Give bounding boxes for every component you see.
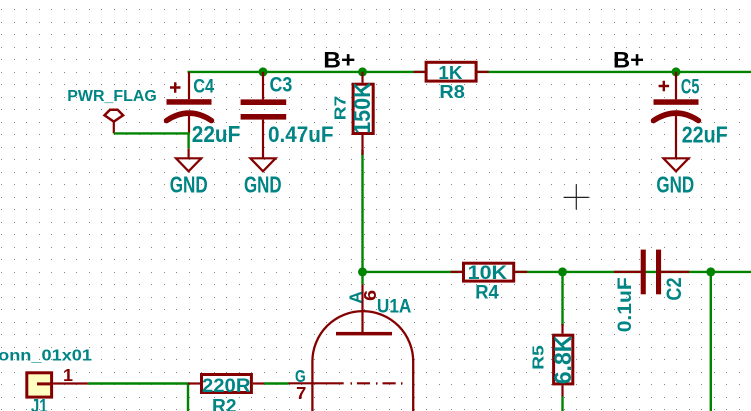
R2 pin 1 (left) — [188, 382, 200, 384]
wire R7 to lower junction vertical — [361, 150, 363, 285]
grid dashed line — [351, 382, 403, 384]
anode plate bar — [336, 332, 392, 336]
junction R5 node — [558, 267, 567, 276]
svg-text:150K: 150K — [349, 82, 375, 134]
svg-text:220R: 220R — [202, 375, 251, 397]
junction C2 right node — [706, 267, 715, 276]
R4 pin 1 (left) — [451, 271, 462, 273]
svg-text:0.47uF: 0.47uF — [268, 122, 334, 147]
C2 left plate — [641, 250, 646, 295]
C4 pin 2 (bottom) — [188, 116, 190, 134]
junction at C3 top — [259, 67, 268, 76]
svg-text:1: 1 — [63, 365, 73, 385]
C5 pin 2 (bottom) — [675, 116, 677, 159]
R4 pin 2 (right) — [515, 271, 527, 273]
GND1 pin — [188, 149, 190, 159]
PWR_FLAG flag symbol — [105, 110, 124, 122]
C4 polarity + sign — [170, 82, 181, 93]
junction anode node — [358, 267, 367, 276]
wire R5 to bottom edge — [561, 397, 563, 411]
svg-text:U1A: U1A — [377, 295, 412, 317]
PWR_FLAG pin — [113, 122, 115, 133]
svg-text:GND: GND — [656, 172, 694, 198]
C5 curved negative plate — [654, 113, 699, 121]
GND2 triangle — [250, 158, 275, 171]
svg-text:Conn_01x01: Conn_01x01 — [0, 348, 92, 365]
svg-text:7: 7 — [296, 383, 306, 403]
R8 pin 2 (right) — [478, 71, 489, 73]
svg-text:C2: C2 — [663, 278, 686, 301]
R8 body — [426, 62, 476, 81]
GND3 triangle — [663, 158, 688, 171]
connector J1 — [0, 348, 92, 411]
svg-text:0.1uF: 0.1uF — [614, 277, 636, 332]
svg-text:R8: R8 — [439, 81, 465, 102]
svg-text:R5: R5 — [530, 345, 547, 370]
svg-text:GND: GND — [170, 172, 208, 198]
R2 pin 2 (right) — [253, 382, 264, 384]
C4 curved negative plate — [167, 113, 212, 121]
svg-text:B+: B+ — [613, 48, 644, 73]
triode U1A — [289, 285, 414, 411]
svg-text:R4: R4 — [475, 282, 499, 304]
C2 pin 2 (right) — [661, 271, 689, 273]
C2 right plate — [656, 250, 661, 295]
wire J1 to R2 — [88, 384, 188, 411]
svg-text:6.8K: 6.8K — [550, 335, 577, 384]
svg-text:C3: C3 — [270, 73, 293, 97]
GND1 triangle — [176, 158, 201, 171]
wire PWR_FLAG to C4 — [114, 133, 189, 148]
svg-text:B+: B+ — [323, 48, 355, 73]
capacitor C3 — [241, 67, 334, 158]
capacitor C5 — [654, 72, 728, 158]
svg-text:PWR_FLAG: PWR_FLAG — [67, 88, 157, 105]
R7 body — [353, 84, 373, 133]
C3 top plate — [241, 99, 287, 105]
cursor crosshair — [564, 184, 589, 209]
svg-text:22uF: 22uF — [682, 121, 728, 147]
wire lower horizontal — [363, 271, 751, 273]
ground GND2 under C3 — [244, 158, 282, 197]
svg-text:GND: GND — [244, 172, 282, 198]
svg-text:R7: R7 — [332, 96, 349, 121]
J1 pin 1 line — [53, 382, 88, 384]
R5 pin 2 (bottom) — [561, 385, 563, 396]
wire right vertical from C2 junction — [710, 272, 712, 411]
wire B+ top horizontal — [188, 71, 751, 73]
J1 body box — [27, 373, 52, 397]
C4 pin 1 (top) — [188, 72, 190, 99]
C5 positive plate — [654, 99, 699, 105]
junction at R7 top — [358, 67, 367, 76]
ground GND1 under C4 — [170, 149, 208, 198]
R5 body — [554, 335, 573, 384]
capacitor C4 — [167, 72, 241, 147]
svg-text:R2: R2 — [212, 395, 237, 411]
C3 pin 1 (top) — [262, 72, 264, 100]
R7 pin 2 (bottom) — [361, 135, 363, 155]
resistor R8 — [414, 62, 489, 102]
svg-text:C4: C4 — [193, 76, 214, 98]
junction at C5 top — [672, 67, 681, 76]
resistor R5 — [530, 272, 576, 411]
R2 body — [202, 375, 252, 393]
anode pin 6 — [361, 285, 363, 334]
resistor R7 — [332, 72, 374, 155]
resistor R2 — [188, 375, 289, 411]
C3 bottom plate — [241, 114, 287, 120]
envelope — [312, 311, 413, 411]
svg-text:22uF: 22uF — [192, 121, 241, 147]
svg-text:J1: J1 — [31, 395, 48, 411]
ground GND3 under C5 — [656, 158, 694, 197]
R8 pin 1 (left) — [414, 71, 425, 73]
R5 pin 1 (top) — [561, 324, 563, 334]
grid pin 7 — [289, 382, 344, 384]
C2 pin 1 (left) — [614, 271, 641, 273]
resistor R4 — [451, 262, 528, 303]
power flag PWR_FLAG — [67, 88, 157, 133]
capacitor C2 — [614, 250, 689, 333]
wire R2 to U1A grid pin — [264, 382, 289, 384]
R7 pin 1 (top) — [361, 72, 363, 83]
wire junction to R5 — [561, 272, 563, 326]
C4 positive plate — [167, 99, 212, 105]
J1 pin socket mark — [37, 382, 53, 385]
C3 pin 2 (bottom) — [262, 120, 264, 159]
C5 pin 1 (top) — [675, 72, 677, 99]
svg-text:1K: 1K — [438, 62, 463, 83]
R4 body — [464, 263, 514, 281]
C5 polarity + sign — [659, 81, 670, 92]
svg-text:C5: C5 — [681, 74, 700, 98]
